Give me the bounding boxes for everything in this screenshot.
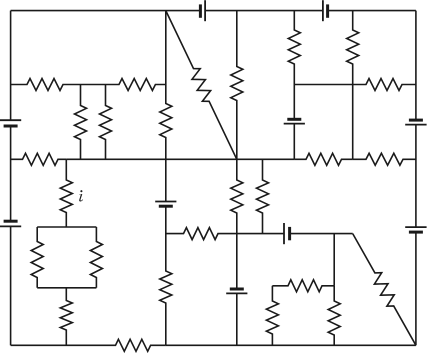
wire from node at x294 to resistor R4 bbox=[294, 84, 352, 86]
battery B6 negative plate (short) bbox=[409, 231, 423, 234]
battery B5 positive plate (long) bbox=[405, 124, 426, 126]
battery B7 negative plate (short) bbox=[288, 227, 291, 240]
resistor R5 on mid-left wire bbox=[11, 153, 67, 165]
battery B4 negative plate (short) bbox=[4, 220, 18, 223]
battery B10 positive plate (long) bbox=[284, 123, 305, 125]
current label i bbox=[79, 190, 83, 201]
battery B6 positive plate (long) bbox=[405, 226, 426, 228]
wire left edge lower bbox=[10, 226, 12, 345]
battery B9 positive plate (long) bbox=[226, 292, 247, 294]
wire right edge upper bbox=[415, 11, 417, 121]
wire right edge middle bbox=[415, 125, 417, 228]
wire bottom right segment bbox=[166, 344, 416, 346]
resistor R16 vertical at x262 bbox=[257, 159, 269, 233]
resistor R23 below box bbox=[60, 288, 72, 346]
battery B5 negative plate (short) bbox=[409, 119, 423, 122]
wire top-middle segment (B1 to B2) bbox=[205, 10, 323, 12]
wire vertical x334 upper bbox=[333, 234, 335, 286]
battery B1 positive plate (long) bbox=[204, 0, 206, 21]
battery B3 negative plate (short) bbox=[4, 125, 18, 128]
wire box bottom edge bbox=[37, 287, 96, 289]
battery B2 negative plate (short) bbox=[326, 4, 329, 17]
wire right edge lower bbox=[415, 232, 417, 345]
wire lower-mid row from B7 to diagonal node bbox=[290, 233, 353, 235]
resistor R14 on center vertical upper bbox=[231, 11, 243, 160]
wire box top edge bbox=[37, 226, 96, 228]
resistor R4 on upper-right wire bbox=[353, 79, 416, 91]
resistor R8 on lower-mid wire bbox=[166, 228, 284, 240]
resistor R24 on subcircuit horizontal wire bbox=[272, 280, 334, 292]
resistor R26 on vertical x334 bbox=[328, 286, 340, 346]
battery B1 negative plate (short) bbox=[199, 4, 202, 17]
resistor R6 on mid row bbox=[294, 153, 352, 165]
resistor R12 on center-left vertical lower bbox=[160, 206, 172, 345]
wire top-left segment (node A to battery B1) bbox=[11, 10, 201, 12]
resistor R18 on vertical at x352 bbox=[347, 11, 359, 160]
resistor R15 on center vertical middle bbox=[231, 159, 243, 289]
wire mid row from x237 to x294 bbox=[237, 158, 294, 160]
battery B7 positive plate (long) bbox=[283, 223, 285, 244]
resistor R13 on diagonal wire bbox=[166, 11, 237, 160]
resistor R19 on lower diagonal wire bbox=[353, 234, 416, 346]
resistor R20 with current label i bbox=[60, 159, 72, 227]
resistor R22 parallel box right bbox=[90, 227, 102, 288]
resistor R2 on upper-left wire bbox=[11, 79, 81, 91]
battery B8 negative plate (short) bbox=[159, 205, 173, 208]
resistor R9 vertical at x80 bbox=[75, 85, 87, 160]
wire left edge upper bbox=[10, 11, 12, 121]
wire mid row from x66 to x237 bbox=[66, 158, 237, 160]
resistor R3 on upper-left wire bbox=[81, 79, 166, 91]
wire top-right segment (B2 to node B) bbox=[328, 10, 416, 12]
battery B10 negative plate (short) bbox=[287, 118, 301, 121]
battery B9 negative plate (short) bbox=[230, 288, 244, 291]
resistor R7 on mid row bbox=[353, 153, 416, 165]
battery B8 positive plate (long) bbox=[155, 201, 176, 203]
resistor R11 on center-left vertical bbox=[160, 11, 172, 202]
battery B3 positive plate (long) bbox=[0, 119, 21, 121]
resistor R21 parallel box left bbox=[31, 227, 43, 288]
wire left edge middle bbox=[10, 126, 12, 221]
resistor R10 vertical at x105 bbox=[100, 85, 112, 160]
wire center vertical below B9 bbox=[236, 293, 238, 345]
battery B2 positive plate (long) bbox=[322, 0, 324, 21]
battery B4 positive plate (long) bbox=[0, 225, 21, 227]
wire vertical x294 below B10 bbox=[293, 124, 295, 160]
resistor R17 on vertical at x294 bbox=[288, 11, 300, 120]
resistor R1 on bottom wire bbox=[11, 339, 166, 351]
resistor R25 on subcircuit left vertical bbox=[266, 286, 278, 346]
